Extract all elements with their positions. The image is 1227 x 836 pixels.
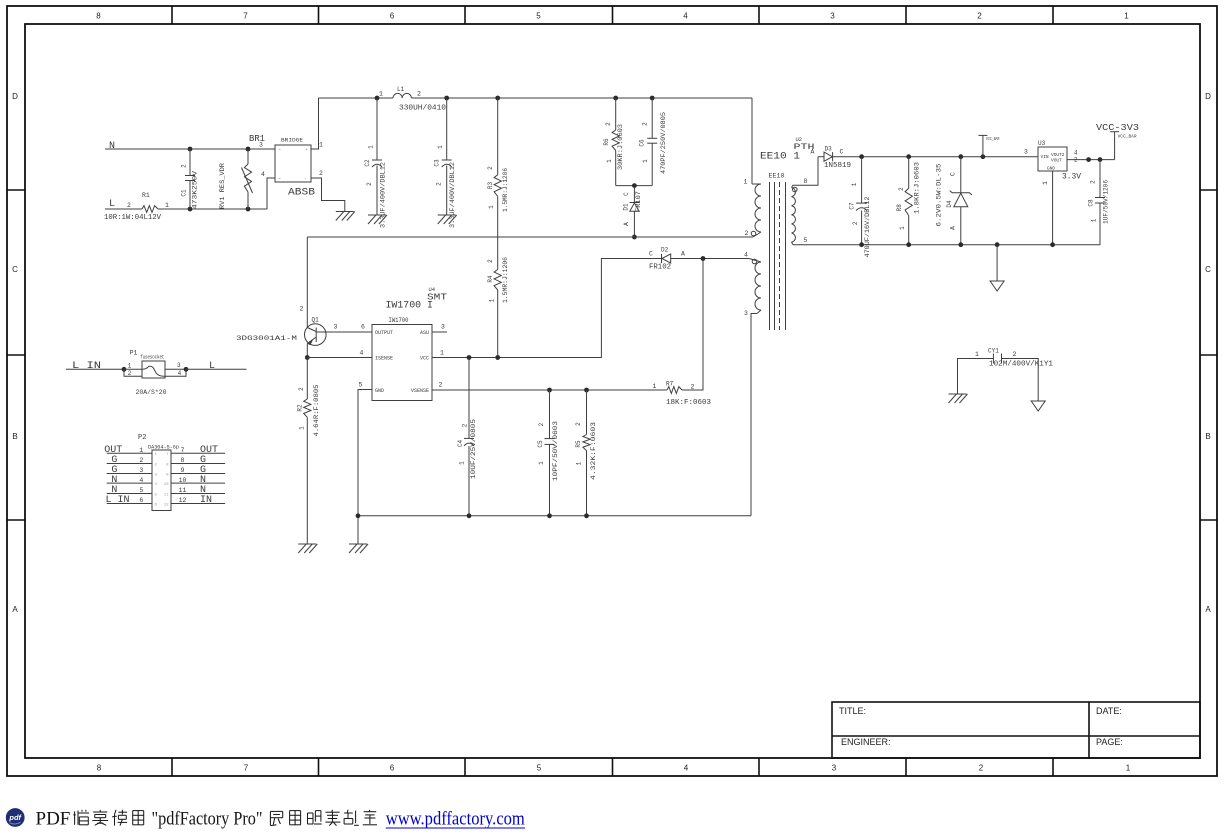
svg-text:8: 8 [96,12,101,21]
svg-text:1: 1 [851,182,858,186]
svg-text:A: A [811,149,815,156]
svg-text:A: A [1205,605,1211,614]
svg-text:3: 3 [177,362,181,369]
wire P2 pin 1 left [107,452,152,454]
svg-text:2: 2 [139,457,143,464]
junction R8 bottom [906,242,911,247]
wire to secondary ground [996,245,998,281]
svg-text:R4: R4 [487,275,494,283]
junction R6 top [613,96,618,101]
svg-text:DATE:: DATE: [1096,706,1122,716]
power flag VCC_BAR on rectified rail [981,154,986,159]
svg-text:12: 12 [179,497,187,504]
svg-text:10UF/25V/0805: 10UF/25V/0805 [470,419,477,479]
junction D1 anode on switch rail [632,235,637,240]
svg-text:IW1700: IW1700 [389,317,409,324]
svg-text:C: C [840,149,844,156]
svg-text:TITLE:: TITLE: [839,706,866,716]
svg-text:4: 4 [683,12,688,21]
svg-text:VCC: VCC [420,356,429,362]
diode D2 FR102 [601,258,661,260]
svg-text:R5: R5 [575,440,582,448]
capacitor C2 3.3UF/400V/DBL12 [376,98,378,160]
svg-text:12: 12 [164,503,169,507]
svg-text:1: 1 [139,447,143,454]
svg-text:1: 1 [899,226,906,230]
svg-text:6: 6 [139,497,143,504]
svg-text:7: 7 [181,447,185,454]
svg-text:473K250V: 473K250V [192,171,199,209]
junction R3 top [495,96,500,101]
svg-text:D3: D3 [825,146,833,153]
resistor R4 1.5MR:J:1206 [494,270,501,291]
svg-text:pdf: pdf [8,813,22,822]
svg-text:B: B [12,432,17,441]
ground at BR1 pin2 [336,211,354,213]
svg-text:1: 1 [606,159,613,163]
wire HV bus left segment [319,97,394,99]
svg-text:C5: C5 [537,440,544,448]
svg-text:N: N [109,141,115,152]
junction C7 bottom [859,242,864,247]
svg-text:5: 5 [139,487,143,494]
svg-text:10R:1W:04L12V: 10R:1W:04L12V [104,214,162,222]
svg-text:7: 7 [243,12,248,21]
junction R4 bottom [495,355,500,360]
svg-text:7: 7 [244,764,249,773]
svg-text:30KR:J:0603: 30KR:J:0603 [617,124,624,170]
svg-text:4.64R:F:0805: 4.64R:F:0805 [313,384,320,436]
junction RV1 top [246,147,251,152]
svg-text:6: 6 [390,12,395,21]
transistor Q1 3DG3001A1-M [305,324,327,346]
wire L line right [158,208,267,210]
svg-text:330UH/0410: 330UH/0410 [399,105,446,113]
wire L line left [105,208,142,210]
svg-text:3DG3001A1-M: 3DG3001A1-M [236,335,297,342]
svg-text:1: 1 [1090,218,1097,222]
svg-text:11: 11 [164,493,169,497]
svg-text:R3: R3 [487,182,494,190]
svg-text:1: 1 [379,91,383,98]
svg-text:5: 5 [804,237,808,244]
svg-text:2: 2 [575,422,582,426]
svg-text:2: 2 [641,122,648,126]
svg-text:2: 2 [691,384,695,391]
svg-text:C2: C2 [364,159,371,167]
svg-text:5: 5 [536,12,541,21]
svg-text:10: 10 [179,477,187,484]
svg-text:8: 8 [804,178,808,185]
svg-text:10PF/50V/0603: 10PF/50V/0603 [552,421,559,481]
wire BR1 pin4 [267,178,275,209]
svg-text:L: L [109,199,115,210]
svg-text:DA304-5-6p: DA304-5-6p [148,444,179,451]
varistor RV1 RES_VDR [247,149,249,164]
svg-text:102M/400V/K1Y1: 102M/400V/K1Y1 [989,361,1053,369]
svg-text:2: 2 [852,221,859,225]
ground at C3 [438,214,456,216]
svg-text:1: 1 [368,145,375,149]
wire P2 pin 2 left [107,463,152,465]
svg-text:1.8KR:J:0603: 1.8KR:J:0603 [914,162,921,214]
junction R5 top [584,388,589,393]
wire P1 pin4 stub [165,369,186,376]
svg-text:1N5819: 1N5819 [824,162,851,170]
svg-text:3: 3 [744,310,748,317]
svg-text:9: 9 [181,467,185,474]
wire U3 GND pin1 [1052,171,1054,245]
svg-text:2: 2 [461,423,468,427]
wire BR1 pin1 riser [311,98,319,149]
svg-text:D: D [12,92,18,101]
junction C3 top [444,96,449,101]
svg-text:R7: R7 [666,381,674,388]
svg-text:1: 1 [653,383,657,390]
svg-text:PDF: PDF [36,809,71,830]
title block [832,702,1200,758]
resistor R7 18K:F:0603 [667,387,682,394]
junction D4 anode [958,242,963,247]
wire P2 pin 7 right [171,452,225,454]
svg-text:2: 2 [1090,180,1097,184]
svg-text:B: B [1205,432,1210,441]
svg-text:1.5MR:J:1206: 1.5MR:J:1206 [502,257,509,303]
svg-text:1: 1 [128,363,132,370]
svg-text:2: 2 [977,12,982,21]
junction D2 anode [701,256,706,261]
svg-text:R1: R1 [142,192,150,199]
svg-text:C8: C8 [1088,199,1095,207]
svg-text:C: C [12,265,18,274]
svg-text:4: 4 [360,350,364,357]
wire U3 VOUT [1067,159,1115,161]
ground hatch at CY1 pin1 [949,393,967,395]
svg-text:CY1: CY1 [988,348,999,355]
wire R6 C6 join to D1 [616,185,653,187]
resistor R8 1.8KR:J:0603 [908,157,910,189]
secondary ground rail [793,244,1100,246]
svg-text:Q1: Q1 [312,317,320,324]
wire HV bus right segment [411,97,752,99]
svg-text:2: 2 [366,182,373,186]
wire P1 pin2 stub [124,369,142,376]
svg-text:"pdfFactory Pro": "pdfFactory Pro" [152,809,263,830]
svg-text:3: 3 [441,324,445,331]
svg-text:4: 4 [744,252,748,259]
svg-text:2: 2 [319,170,323,177]
ground at C2 [368,214,386,216]
svg-text:L: L [209,361,215,372]
capacitor C6 470PF/250V/0805 [651,98,653,138]
wire R4 to VCC rail [497,290,499,358]
wire R3 to R4 [497,196,499,269]
svg-text:5: 5 [537,764,542,773]
svg-text:A: A [681,251,685,258]
junction C1 top [188,147,193,152]
svg-text:ABSB: ABSB [288,188,315,199]
svg-text:ISENSE: ISENSE [375,356,393,362]
svg-text:C: C [623,192,630,196]
junction R8 top [906,154,911,159]
svg-text:1: 1 [642,159,649,163]
svg-text:4: 4 [139,477,143,484]
capacitor C7 470UF/16V/DBL12 [861,157,863,203]
svg-text:N: N [200,475,206,486]
svg-text:8: 8 [97,764,102,773]
wire N line [105,148,275,150]
svg-text:A: A [623,222,630,226]
junction U3 GND [1050,242,1055,247]
wire P2 pin 4 left [107,482,152,484]
junction P1 left [122,367,127,372]
svg-text:1: 1 [744,179,748,186]
svg-text:VCC_BAR: VCC_BAR [1118,134,1137,140]
svg-text:C7: C7 [849,202,856,210]
svg-text:3.3UF/400V/DBL12: 3.3UF/400V/DBL12 [380,162,387,228]
svg-text:IW1700 I: IW1700 I [386,301,434,312]
wire P2 pin 10 right [171,482,225,484]
junction ground tap [995,242,1000,247]
svg-text:1: 1 [576,461,583,465]
pdfFactory logo [6,808,25,827]
svg-text:GND: GND [1047,166,1055,172]
svg-text:VOUT2: VOUT2 [1051,152,1065,158]
svg-text:VSENSE: VSENSE [411,388,429,394]
svg-text:C: C [1205,265,1211,274]
junction C5 top [547,388,552,393]
svg-text:EE10: EE10 [769,173,785,180]
capacitor C1 473K250V [189,149,191,175]
svg-text:2: 2 [538,422,545,426]
wire P2 pin 8 right [171,463,225,465]
resistor R5 4.32K:F:0603 [586,390,588,435]
svg-text:2: 2 [300,306,304,313]
svg-text:6.2V0.5W:DL-35: 6.2V0.5W:DL-35 [935,163,942,226]
svg-text:R6: R6 [603,138,610,146]
junction C4 top [467,355,472,360]
svg-text:IN: IN [200,495,212,506]
svg-text:1: 1 [1126,764,1131,773]
svg-text:VIN: VIN [1041,154,1049,160]
svg-text:C4: C4 [457,440,464,448]
wire C8 bottom riser [1099,203,1101,245]
svg-text:1: 1 [437,145,444,149]
wire fuse to L [186,368,247,370]
svg-text:2: 2 [436,182,443,186]
svg-text:R8: R8 [896,204,903,212]
wire U4 VCC net [432,259,662,358]
svg-text:D: D [1205,92,1211,101]
svg-text:1: 1 [488,205,495,209]
wire P1 pin3 [165,368,186,370]
svg-text:1.5MR:J:1206: 1.5MR:J:1206 [502,168,509,212]
footer CJK block 1 [73,810,89,825]
wire switch rail (drain rail) [307,236,753,238]
svg-text:ASU: ASU [420,330,429,336]
svg-text:L1: L1 [397,86,405,93]
svg-text:1: 1 [319,142,323,149]
svg-text:3: 3 [139,467,143,474]
svg-text:ENGINEER:: ENGINEER: [841,737,891,747]
svg-text:470PF/250V/0805: 470PF/250V/0805 [660,112,667,174]
wire HV bus to pin1 [751,98,753,184]
svg-text:BRIDGE: BRIDGE [281,137,304,144]
svg-text:4: 4 [1074,150,1078,157]
wire BR1 pin2 to ground [311,178,345,212]
resistor R3 1.5MR:J:1206 [497,98,499,175]
svg-text:3: 3 [832,764,837,773]
svg-text:20A/S*20: 20A/S*20 [136,389,167,396]
junction Q1 emitter node [305,355,310,360]
svg-text:2: 2 [487,259,494,263]
ground at R2 [298,543,316,545]
svg-text:2: 2 [417,91,421,98]
svg-text:C6: C6 [638,139,645,147]
svg-text:1: 1 [489,299,496,303]
svg-text:2: 2 [898,187,905,191]
wire P2 pin 9 right [171,473,225,475]
svg-text:FR102: FR102 [649,264,671,272]
junction P1 right [184,367,189,372]
svg-text:2: 2 [979,764,984,773]
capacitor C5 10PF/50V/0603 [549,390,551,439]
capacitor C3 3.3UF/400V/DBL12 [446,98,448,160]
svg-text:~: ~ [278,177,281,182]
svg-text:2: 2 [487,166,494,170]
wire Q1 base to U4 OUTPUT [317,331,373,333]
svg-text:1: 1 [538,461,545,465]
svg-text:2: 2 [298,387,305,391]
junction C4 bottom [467,513,472,518]
junction C7 top [859,154,864,159]
svg-text:6: 6 [390,764,395,773]
junction D1 cathode [632,183,637,188]
svg-text:1: 1 [165,202,169,209]
svg-text:C: C [949,172,956,176]
resistor R1 10R:1W:04L12V [142,206,158,213]
svg-text:1: 1 [1042,181,1049,185]
svg-text:GND: GND [375,388,384,394]
wire R7 to D2 anode [682,259,703,391]
svg-text:~: ~ [278,148,281,153]
svg-text:3.3UF/400V/DBL12: 3.3UF/400V/DBL12 [449,162,456,228]
svg-text:FR107: FR107 [635,191,642,212]
wire P1 pin1 [124,368,142,370]
svg-text:11: 11 [179,487,187,494]
svg-text:1: 1 [440,350,444,357]
wire U4 ASU stub pin3 [432,331,447,333]
wire ISENSE [307,357,372,359]
svg-text:C: C [649,251,653,258]
capacitor C4 10UF/25V/0805 [468,358,470,439]
footer CJK block 2 [270,811,282,825]
frame column ticks [171,6,173,24]
svg-text:P2: P2 [138,434,146,442]
svg-text:2: 2 [605,122,612,126]
svg-text:2: 2 [745,230,749,237]
svg-text:C3: C3 [434,159,441,167]
wire P2 pin 6 left [107,503,152,505]
svg-text:+: + [305,148,308,153]
svg-text:4: 4 [684,764,689,773]
svg-text:1UF/50V/1206: 1UF/50V/1206 [1103,180,1110,224]
junction RV1 bottom [246,207,251,212]
svg-text:8: 8 [181,457,185,464]
junction C2 top [375,96,380,101]
svg-text:5: 5 [359,382,363,389]
svg-text:18K:F:0603: 18K:F:0603 [666,399,711,407]
svg-text:4.32K:F:0603: 4.32K:F:0603 [590,422,597,480]
svg-text:3: 3 [259,142,263,149]
bottom ground rail [358,515,751,517]
svg-text:2: 2 [127,202,131,209]
junction C1 bottom [188,207,193,212]
svg-text:U3: U3 [1038,140,1046,147]
resistor R2 4.64R:F:0805 [306,358,308,400]
svg-text:A: A [12,605,18,614]
svg-text:R2: R2 [297,404,304,412]
svg-text:OUTPUT: OUTPUT [375,330,393,336]
wire Q1 collector riser [306,237,308,328]
svg-text:www.pdffactory.com: www.pdffactory.com [386,809,525,830]
wire P2 pin 5 left [107,493,152,495]
svg-text:D1: D1 [623,203,630,211]
svg-text:1: 1 [975,351,979,358]
svg-text:10: 10 [164,483,169,487]
frame row ticks [7,189,25,191]
transformer core [769,182,771,330]
svg-text:3: 3 [334,324,338,331]
junction C6 top [650,96,655,101]
svg-text:P1: P1 [130,350,138,357]
svg-text:D2: D2 [661,247,669,254]
svg-text:L IN: L IN [72,361,101,372]
wire P2 pin 11 right [171,493,225,495]
svg-text:1: 1 [459,461,466,465]
svg-text:1: 1 [1124,12,1129,21]
diode D1 FR107 [633,186,635,203]
ground arrow secondary [990,281,1004,291]
svg-text:C1: C1 [181,189,188,197]
svg-text:PAGE:: PAGE: [1096,737,1123,747]
svg-text:D4: D4 [946,200,953,208]
junction VOUT a [1086,157,1091,162]
inductor L1 330UH/0410 [393,93,411,98]
zener diode D4 6.2V0.5W:DL-35 [958,154,963,159]
svg-text:-: - [304,177,307,182]
svg-text:3: 3 [1024,149,1028,156]
wire P2 pin 12 right [171,503,225,505]
svg-text:2: 2 [181,164,188,168]
wire P2 pin 3 left [107,473,152,475]
wire transformer pin3 drop [751,314,757,516]
ground at U4 GND [349,543,367,545]
svg-text:EE10 1: EE10 1 [760,151,800,163]
svg-text:L IN: L IN [106,495,130,506]
ground arrow at CY1 pin2 [1031,401,1045,411]
svg-text:3.3V: 3.3V [1062,173,1081,182]
svg-text:VOUT: VOUT [1051,158,1062,164]
junction gnd rail left [356,513,361,518]
svg-text:4: 4 [261,171,265,178]
junction VOUT C8 [1098,157,1103,162]
capacitor C8 1UF/50V/1206 [1099,160,1101,198]
svg-text:N: N [111,475,117,486]
svg-text:RV1 RES_VDR: RV1 RES_VDR [219,163,226,209]
svg-text:A: A [949,226,956,230]
resistor R6 30KR:J:0603 [615,98,617,130]
